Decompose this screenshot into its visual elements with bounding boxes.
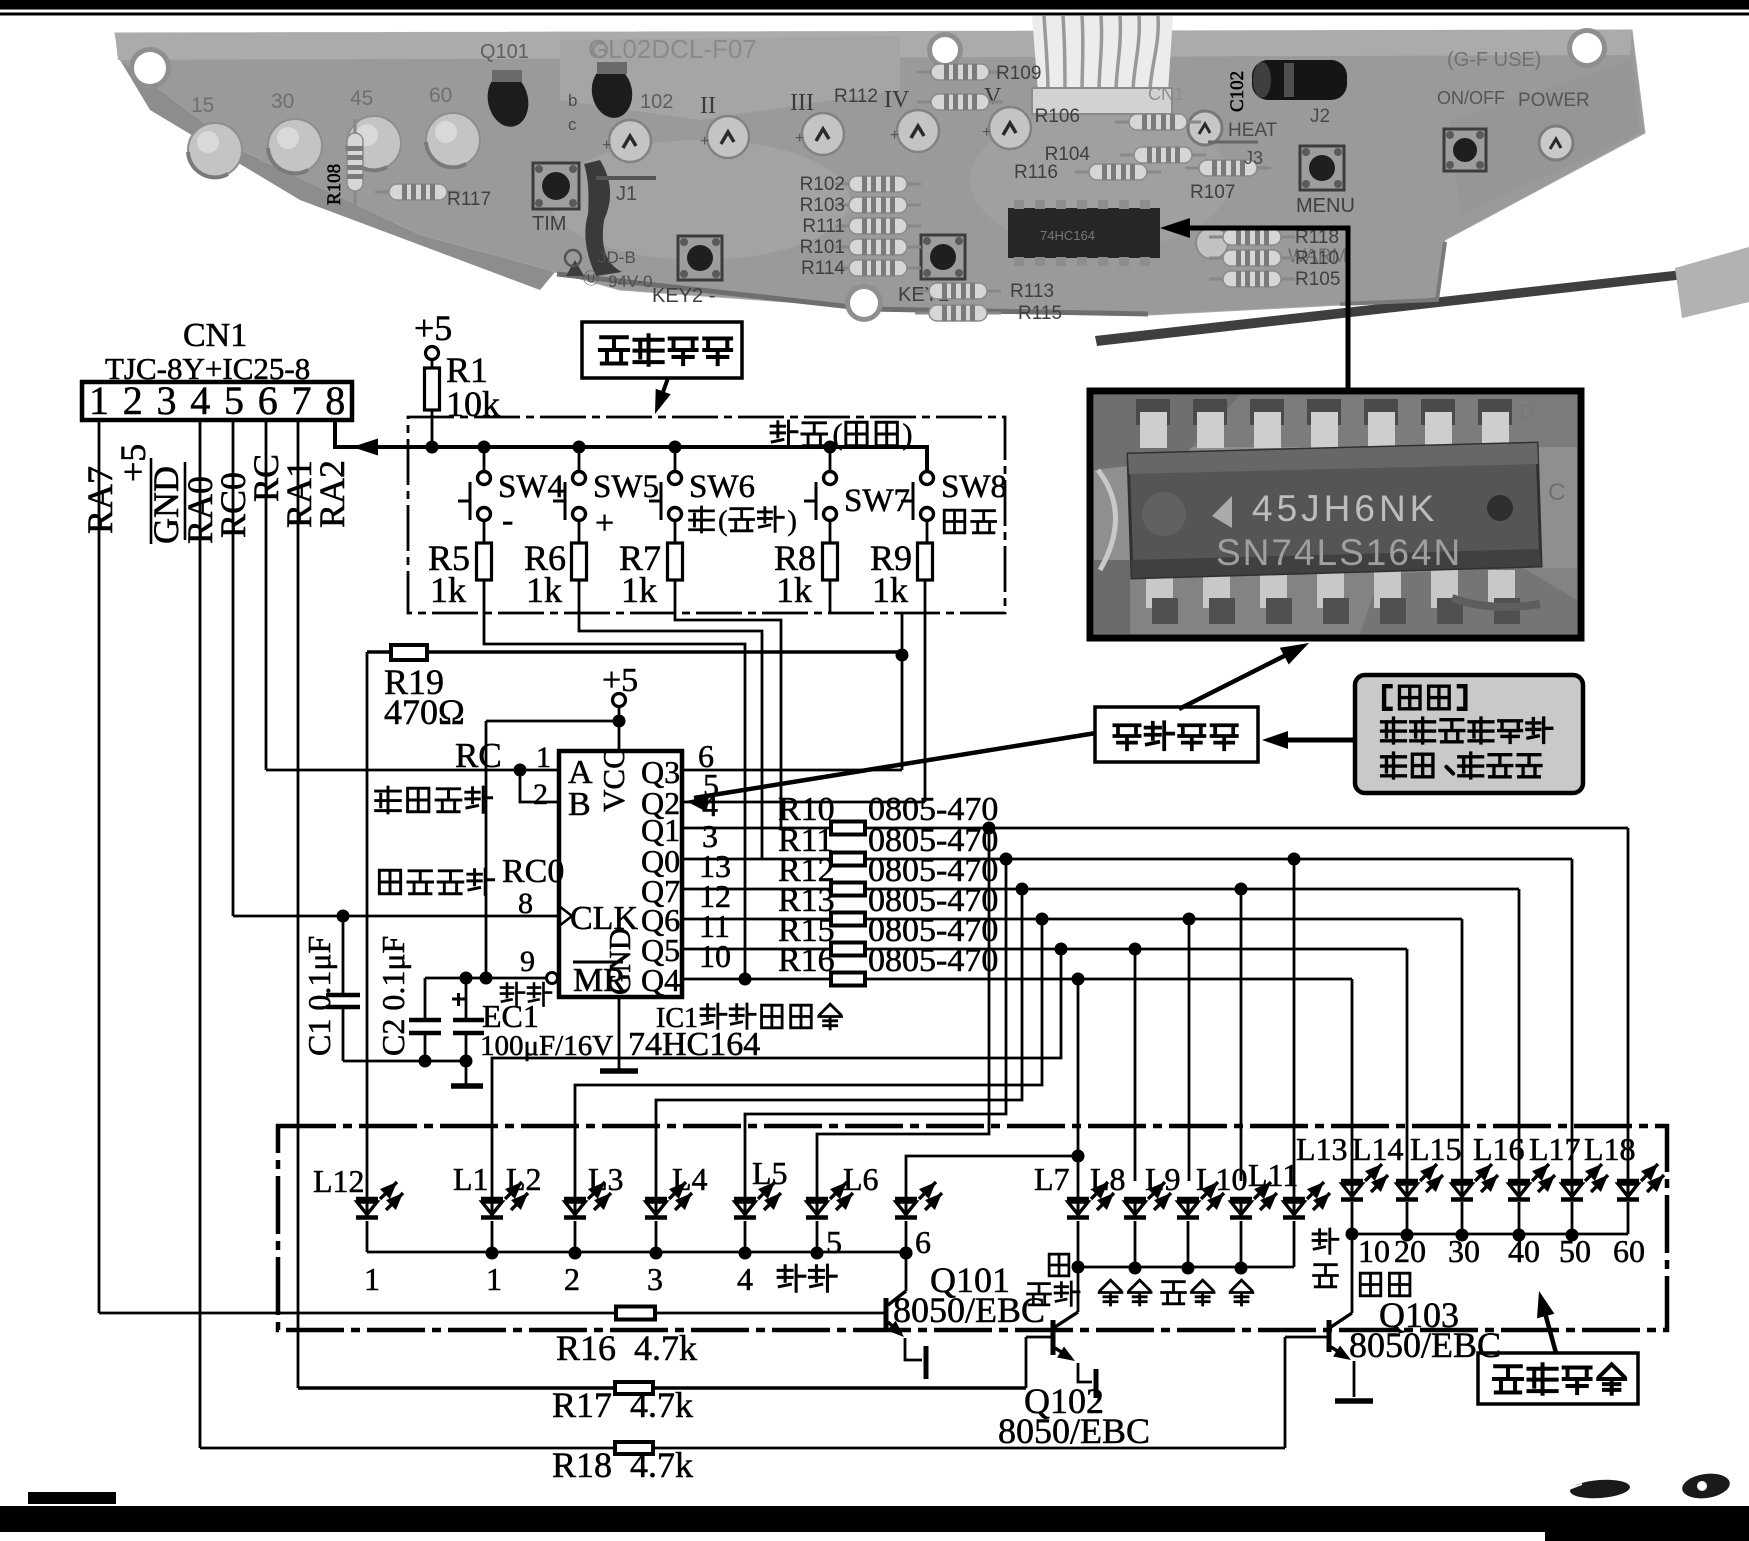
wire RC (pin6) down to data line	[265, 420, 268, 770]
svg-text:5: 5	[224, 378, 244, 423]
PCB tact buttons (photo)	[532, 129, 1486, 307]
svg-text:4.7k: 4.7k	[630, 1445, 693, 1485]
svg-text:KEY2 -: KEY2 -	[652, 285, 715, 307]
svg-text:R16: R16	[556, 1328, 616, 1368]
row Q6 wire to L15	[865, 913, 1462, 926]
svg-text:8050/EBC: 8050/EBC	[893, 1290, 1045, 1330]
svg-text:RC: RC	[455, 736, 502, 775]
LED L12	[313, 1163, 403, 1218]
switch SW8 (bus corner)	[830, 447, 934, 543]
resistor R11 0805-470 on row pin 3	[682, 818, 998, 866]
svg-text:+: +	[795, 130, 804, 147]
svg-text:III: III	[790, 90, 814, 116]
feeder Q5 to L1	[492, 949, 1061, 1199]
svg-text:RA2: RA2	[312, 460, 352, 528]
svg-text:C1 0.1μF: C1 0.1μF	[301, 936, 337, 1056]
svg-text:+: +	[602, 137, 611, 154]
feeder Q5row corner to L14	[1406, 949, 1409, 1181]
svg-text:CN1: CN1	[183, 317, 247, 354]
svg-text:8: 8	[325, 378, 345, 423]
svg-text:L5: L5	[752, 1155, 788, 1191]
wire R7 bottom to Q1 row	[675, 580, 781, 828]
row Q4 wire to L13	[739, 973, 1353, 986]
bottom right scan marks	[1556, 1471, 1731, 1501]
cathode bus of L13-L18 (timing)	[1346, 1202, 1629, 1242]
bottom border bars	[0, 1492, 1749, 1541]
electrolytic capacitor EC1 100uF/16V	[452, 972, 613, 1085]
svg-text:TIM: TIM	[532, 213, 566, 235]
svg-text:L17: L17	[1529, 1131, 1581, 1167]
PCB IC chip (photo)	[1008, 200, 1160, 266]
svg-text:SW8: SW8	[941, 469, 1007, 505]
IC1 chip photo SN74LS164N	[1090, 391, 1581, 638]
svg-text:0805-470: 0805-470	[868, 942, 998, 979]
svg-text:R105: R105	[1295, 269, 1340, 290]
LED L1	[453, 1161, 528, 1218]
label huoli	[778, 1265, 805, 1291]
connector CN1 body	[82, 378, 352, 423]
svg-text:Q4: Q4	[641, 962, 680, 998]
PCB control board photo	[115, 28, 1749, 346]
svg-text:L4: L4	[672, 1161, 708, 1197]
LED L10	[1196, 1161, 1277, 1218]
svg-text:L15: L15	[1410, 1131, 1462, 1167]
row Q1 wire to L18	[865, 822, 1628, 835]
resistor R6 1k	[524, 538, 587, 610]
cathode bus of L12,L1-L6	[367, 1221, 913, 1260]
svg-text:4: 4	[737, 1261, 753, 1297]
feeder Q5 to L8	[1134, 949, 1137, 1181]
resistor R10 0805-470 on row pin 4	[682, 787, 998, 835]
svg-text:470Ω: 470Ω	[384, 692, 465, 732]
svg-text:R102: R102	[800, 174, 845, 195]
MR reset wire	[425, 973, 558, 984]
svg-text:L12: L12	[313, 1163, 365, 1199]
+5 terminal for IC1 VCC	[602, 662, 638, 751]
svg-text:R108: R108	[324, 164, 345, 205]
arrow logic-box to IC photo	[1179, 643, 1309, 709]
node labels 1 1 2 3 4	[364, 1261, 753, 1297]
arrow note-box to logic box	[1262, 731, 1355, 749]
Q103 emitter ground	[1335, 1398, 1373, 1404]
svg-text:D: D	[1520, 401, 1534, 423]
svg-text:R18: R18	[552, 1445, 612, 1485]
svg-text:+: +	[982, 124, 991, 141]
feeder Q7 to L10	[1240, 889, 1243, 1181]
dashed box around key switches	[408, 417, 1005, 613]
svg-text:L02DCL-F07: L02DCL-F07	[608, 34, 757, 64]
cathode bus of L7-L11	[1072, 1221, 1295, 1275]
data signal wire to A,B pins	[266, 764, 559, 803]
label SW5	[593, 469, 659, 542]
LED L3	[588, 1161, 692, 1218]
page top border	[0, 0, 1749, 16]
svg-text:IV: IV	[884, 87, 910, 113]
svg-text:L2: L2	[506, 1161, 542, 1197]
feeder Q6 to L2	[575, 919, 1042, 1199]
svg-text:1k: 1k	[526, 570, 562, 610]
resistor R1 10k	[425, 350, 501, 454]
svg-text:+: +	[890, 127, 899, 144]
svg-text:G: G	[588, 34, 608, 64]
label SW4	[498, 469, 564, 539]
LED L13	[1296, 1131, 1388, 1200]
LED L4	[672, 1161, 781, 1218]
svg-text:L7: L7	[1034, 1161, 1070, 1197]
label SW7	[844, 483, 910, 519]
svg-text:Ⓤ: Ⓤ	[583, 270, 599, 288]
LED L18	[1584, 1131, 1664, 1200]
+5 terminal for R1	[414, 308, 452, 360]
PCB electrolytic capacitor C102 (photo)	[1227, 60, 1347, 127]
LED L6	[843, 1161, 942, 1218]
svg-text:+: +	[595, 505, 614, 542]
svg-text:8: 8	[518, 887, 533, 920]
transistor Q101 8050/EBC	[886, 1247, 1045, 1380]
svg-text:6: 6	[915, 1224, 931, 1260]
svg-text:8050/EBC: 8050/EBC	[1349, 1325, 1501, 1365]
svg-text:R111: R111	[802, 216, 845, 237]
wire R5 bottom to Q4 row	[484, 580, 745, 979]
clock signal wire to CLK pin	[233, 910, 559, 923]
LED L8	[1090, 1161, 1171, 1218]
svg-text:10: 10	[1358, 1233, 1390, 1269]
resistor R16 4.7k (base Q101)	[99, 1307, 886, 1369]
label reset	[501, 945, 551, 1006]
arrow logic-box to Q2 pin	[686, 733, 1096, 812]
feeder Q0 to L11	[1293, 859, 1296, 1199]
label huoguo(dingshi) above bus	[771, 418, 912, 451]
wire R19 junction down to Q3 row	[896, 613, 909, 770]
svg-text:2: 2	[533, 778, 548, 811]
svg-text:1: 1	[89, 378, 109, 423]
wire +5 to MR pullup	[480, 721, 620, 985]
feeder Q7row corner to L16	[1518, 889, 1521, 1181]
PCB dark mark near TIM (photo)	[584, 160, 622, 276]
svg-text:L18: L18	[1584, 1131, 1636, 1167]
resistor R16 0805-470 on row pin 10	[682, 938, 998, 986]
svg-text:): )	[787, 506, 796, 537]
resistor R7 1k	[619, 538, 683, 610]
svg-text:VCC: VCC	[596, 748, 631, 812]
svg-text:94V-0: 94V-0	[608, 272, 652, 291]
svg-text:5: 5	[826, 1224, 842, 1260]
svg-text:b: b	[568, 91, 577, 110]
resistor R8 1k	[774, 538, 838, 610]
key bus wire	[432, 445, 927, 449]
svg-text:7: 7	[292, 378, 312, 423]
svg-text:HEAT: HEAT	[1228, 120, 1278, 141]
svg-text:JD-B: JD-B	[598, 248, 636, 267]
svg-text:30: 30	[1448, 1233, 1480, 1269]
svg-text:L13: L13	[1296, 1131, 1348, 1167]
arrow output-box to LED timing bus	[1537, 1291, 1556, 1353]
label SW6	[689, 469, 797, 537]
svg-text:MR: MR	[573, 962, 626, 999]
svg-text:J2: J2	[1310, 106, 1330, 127]
wire R6 bottom to Q0 row	[579, 580, 762, 859]
svg-text:+: +	[700, 133, 709, 150]
IC1 pin 7 ground	[600, 997, 638, 1071]
LED L14	[1352, 1131, 1443, 1200]
svg-text:L9: L9	[1145, 1161, 1181, 1197]
svg-text:15: 15	[191, 94, 214, 117]
svg-text:30: 30	[271, 90, 294, 113]
feeder Q1row corner to L18	[1627, 828, 1630, 1181]
svg-text:4: 4	[190, 378, 210, 423]
LED L2	[506, 1161, 611, 1218]
feeder Q4row corner to L13	[1351, 979, 1354, 1181]
svg-text:J3: J3	[1244, 148, 1263, 168]
svg-text:L11: L11	[1248, 1157, 1298, 1193]
feeder Q0row corner to L17	[1571, 859, 1574, 1181]
capacitor C2 0.1uF	[375, 936, 441, 1068]
svg-text:R101: R101	[800, 237, 845, 258]
wire RA1 (pin7) down to R17 line	[297, 420, 300, 1388]
svg-text:L10: L10	[1196, 1161, 1248, 1197]
svg-text:-: -	[502, 502, 513, 539]
svg-text:POWER: POWER	[1518, 90, 1590, 111]
svg-text:R115: R115	[1018, 303, 1062, 324]
svg-text:2: 2	[564, 1261, 580, 1297]
svg-text:c: c	[568, 115, 577, 134]
svg-text:4.7k: 4.7k	[630, 1385, 693, 1425]
label huoguo (vertical)	[1313, 1229, 1338, 1287]
shift register IC1 74HC164 body	[559, 748, 682, 999]
svg-text:L16: L16	[1473, 1131, 1525, 1167]
svg-text:R110: R110	[1295, 248, 1339, 269]
row Q0 wire to L17	[865, 853, 1572, 866]
PCB HEAT / WARM / POWER LEDs (photo)	[1188, 90, 1590, 267]
LED L16	[1473, 1131, 1555, 1200]
svg-text:R106: R106	[1035, 106, 1080, 127]
svg-text:60: 60	[1613, 1233, 1645, 1269]
svg-text:R116: R116	[1014, 162, 1058, 183]
svg-text:C: C	[1548, 479, 1565, 506]
svg-text:74HC164: 74HC164	[1040, 228, 1095, 243]
resistor R9 1k	[870, 538, 933, 610]
svg-text:R16: R16	[778, 942, 835, 979]
svg-text:2: 2	[123, 378, 143, 423]
svg-text:MENU: MENU	[1296, 195, 1355, 217]
label data signal	[376, 736, 551, 813]
svg-text:50: 50	[1559, 1233, 1591, 1269]
svg-text:1k: 1k	[621, 570, 657, 610]
PCB timer LEDs 15/30/45/60 (photo)	[188, 84, 480, 177]
svg-text:9: 9	[520, 945, 535, 978]
resistor R18 4.7k (base Q103)	[200, 1337, 1285, 1485]
svg-text:L6: L6	[843, 1161, 879, 1197]
wire R9 bottom to Q2 row	[924, 580, 927, 802]
resistor R17 4.7k (base Q102)	[298, 1337, 1026, 1425]
svg-text:SN74LS164N: SN74LS164N	[1216, 532, 1462, 573]
switch SW4	[458, 441, 491, 544]
svg-text:II: II	[700, 93, 716, 119]
switch SW5	[553, 441, 586, 544]
svg-text:L3: L3	[588, 1161, 624, 1197]
wire R19 left down to LED L12	[366, 652, 369, 1199]
svg-text:EC1: EC1	[482, 998, 539, 1034]
svg-text:8050/EBC: 8050/EBC	[998, 1411, 1150, 1451]
timing node labels 10-60	[1358, 1233, 1645, 1269]
svg-text:45JH6NK: 45JH6NK	[1252, 488, 1438, 529]
svg-text:R107: R107	[1190, 182, 1235, 203]
feeder Q7 to L3	[656, 889, 1022, 1199]
label box: command input	[582, 322, 742, 414]
resistor R19 470ohm	[367, 645, 902, 732]
wire R8 bottom stub	[829, 580, 832, 613]
svg-text:R109: R109	[996, 63, 1041, 84]
svg-text:Q101: Q101	[480, 41, 529, 63]
CN1 pin labels	[80, 444, 352, 544]
LED L17	[1529, 1131, 1608, 1200]
connector CN1 title	[105, 317, 310, 386]
svg-text:60: 60	[429, 84, 452, 107]
labels zhengdun shaokao dun	[1099, 1280, 1253, 1305]
svg-text:R117: R117	[447, 189, 491, 210]
EC1 ground bar	[451, 1083, 483, 1089]
switch SW7	[804, 441, 837, 544]
svg-text:R112: R112	[834, 86, 878, 107]
svg-text:L14: L14	[1352, 1131, 1404, 1167]
label SW8	[941, 469, 1007, 533]
resistor R15 0805-470 on row pin 11	[682, 908, 998, 956]
svg-text:C102: C102	[1227, 71, 1248, 112]
row Q7 wire to L16	[865, 883, 1519, 896]
switch SW6	[649, 441, 682, 544]
label zha gongneng	[1028, 1254, 1079, 1305]
label dingshi	[1360, 1273, 1381, 1296]
svg-text:+5: +5	[414, 308, 452, 348]
IC1 output row Q3 (pin6) to R19 junction	[682, 738, 902, 774]
svg-text:4.7k: 4.7k	[634, 1328, 697, 1368]
PCB level LEDs I-V (photo)	[602, 84, 1031, 162]
PCB transistors Q101 Q102 (photo)	[480, 41, 673, 134]
svg-text:L1: L1	[453, 1161, 489, 1197]
arrow from PCB IC down to IC photo	[1160, 218, 1348, 391]
svg-text:1: 1	[536, 741, 551, 774]
svg-text:SW7: SW7	[844, 483, 910, 519]
feeder Q4 to L7 and L6	[906, 979, 1085, 1199]
feeder Q6row corner to L15	[1461, 919, 1464, 1181]
resistor R5 1k	[428, 538, 492, 610]
svg-text:L8: L8	[1090, 1161, 1126, 1197]
svg-text:20: 20	[1394, 1233, 1426, 1269]
PCB white ribbon cable and connector CN1 (photo)	[1032, 16, 1173, 114]
svg-text:R114: R114	[801, 258, 845, 279]
svg-text:1: 1	[486, 1261, 502, 1297]
capacitor C1 0.1uF	[301, 916, 360, 1061]
transistor Q102 8050/EBC	[998, 1267, 1150, 1451]
svg-text:6: 6	[258, 378, 278, 423]
svg-text:102: 102	[640, 91, 673, 113]
resistor R13 0805-470 on row pin 12	[682, 878, 998, 926]
label box: logic circuit	[1095, 707, 1258, 762]
cap ground bus	[343, 1060, 466, 1063]
label box: command output	[1478, 1353, 1638, 1404]
label clock signal	[379, 853, 564, 920]
svg-text:R17: R17	[552, 1385, 612, 1425]
svg-text:(: (	[718, 506, 727, 537]
svg-text:3: 3	[647, 1261, 663, 1297]
svg-text:1k: 1k	[776, 570, 812, 610]
IC1 output row Q2 (pin5) to R9	[682, 767, 925, 803]
svg-text:CLK: CLK	[570, 900, 638, 937]
svg-text:B: B	[568, 786, 591, 823]
svg-text:C2 0.1μF: C2 0.1μF	[375, 936, 411, 1056]
LED L11	[1248, 1157, 1330, 1218]
svg-text:(G-F USE): (G-F USE)	[1447, 49, 1541, 71]
svg-text:1k: 1k	[430, 570, 466, 610]
svg-text:40: 40	[1508, 1233, 1540, 1269]
svg-text:R103: R103	[800, 195, 845, 216]
wire RA0 (pin4) down to R18 line	[199, 420, 202, 1448]
svg-text:CN1: CN1	[1148, 84, 1184, 104]
svg-text:1k: 1k	[872, 570, 908, 610]
wire RA7 (pin1) down to R16 line	[98, 420, 101, 1313]
svg-text:RC0: RC0	[502, 853, 564, 890]
LED L7	[1034, 1161, 1114, 1218]
LED L15	[1410, 1131, 1498, 1200]
label IC1 shift register	[628, 1003, 841, 1063]
resistor R12 0805-470 on row pin 13	[682, 848, 998, 896]
svg-text:10: 10	[699, 938, 731, 974]
wire RA2 (pin8) to key bus	[335, 420, 432, 456]
svg-text:J1: J1	[616, 183, 637, 205]
PCB silkscreen texts (photo)	[565, 34, 1541, 291]
transistor Q103 8050/EBC	[1285, 1234, 1501, 1397]
note box (shuoming)	[1355, 675, 1583, 793]
wire RC0 (pin5) down to CLK line	[232, 420, 235, 916]
svg-text:ON/OFF: ON/OFF	[1437, 88, 1505, 108]
row Q5 wire to L14	[865, 943, 1407, 956]
LED L9	[1145, 1161, 1224, 1218]
feeder Q0 to L4	[745, 859, 1006, 1199]
svg-text:R113: R113	[1010, 281, 1054, 302]
LED L5	[752, 1155, 853, 1218]
svg-text:3: 3	[157, 378, 177, 423]
svg-text:1: 1	[364, 1261, 380, 1297]
PCB resistors (photo)	[324, 63, 1340, 324]
dashed LED panel box	[278, 1126, 1667, 1330]
svg-text:SW6: SW6	[689, 469, 755, 505]
feeder Q6 to L9	[1188, 919, 1191, 1181]
svg-text:45: 45	[350, 87, 373, 110]
feeder Q1 to L5	[817, 828, 989, 1199]
